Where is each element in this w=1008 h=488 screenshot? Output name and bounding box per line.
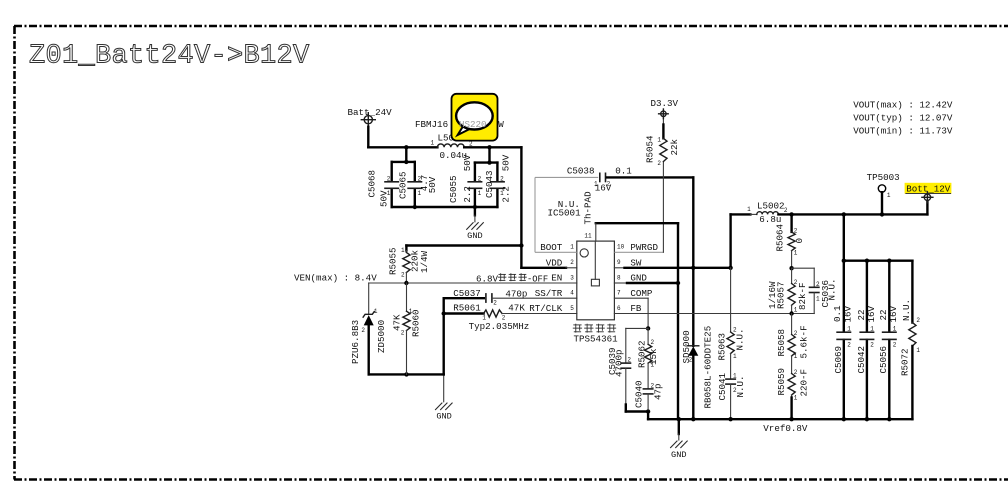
svg-text:1: 1 bbox=[733, 373, 737, 380]
svg-text:1: 1 bbox=[418, 190, 422, 197]
wire Batt_24V vertical drop bbox=[367, 127, 369, 148]
capacitor C5065 bbox=[397, 162, 438, 207]
pin 7 COMP bbox=[617, 288, 653, 299]
svg-text:FBMJ16: FBMJ16 bbox=[415, 119, 448, 130]
svg-text:1: 1 bbox=[887, 192, 891, 199]
svg-text:2: 2 bbox=[816, 281, 820, 288]
pin 10 PWRGD bbox=[617, 242, 658, 253]
svg-text:47K: 47K bbox=[508, 303, 525, 314]
svg-text:TPS54361: TPS54361 bbox=[574, 334, 619, 345]
svg-text:2: 2 bbox=[794, 369, 798, 376]
junction gnd-left rail / R5060 bbox=[404, 372, 408, 376]
resistor R5072 bbox=[900, 261, 921, 420]
svg-text:16V: 16V bbox=[866, 305, 877, 322]
resistor R5064 bbox=[774, 214, 805, 268]
svg-text:2: 2 bbox=[733, 387, 737, 394]
svg-text:R5058: R5058 bbox=[776, 329, 787, 357]
svg-text:2: 2 bbox=[500, 175, 504, 182]
wire out caps feed bbox=[844, 214, 913, 260]
junction SW / snubber bbox=[728, 266, 732, 270]
svg-text:2: 2 bbox=[361, 327, 365, 334]
junction VDD riser / R5055 feed bbox=[519, 243, 523, 247]
svg-text:1: 1 bbox=[794, 307, 798, 314]
wire SS-RT ground riser bbox=[443, 298, 445, 374]
junction L5001 out / input caps B bbox=[487, 145, 491, 149]
junction gnd rail / gnd symbol bbox=[677, 417, 681, 421]
wire C5039 bottom to gnd bbox=[626, 405, 648, 412]
junction EN / R5055 R5060 bbox=[404, 281, 408, 285]
svg-text:16V: 16V bbox=[843, 305, 854, 322]
svg-text:50V: 50V bbox=[501, 154, 512, 171]
svg-text:1: 1 bbox=[478, 190, 482, 197]
svg-text:2: 2 bbox=[627, 357, 631, 364]
resistor R5054 bbox=[645, 118, 680, 167]
svg-text:1: 1 bbox=[794, 395, 798, 402]
svg-text:1: 1 bbox=[733, 353, 737, 360]
wire BOOT bootstrap path (gray) bbox=[535, 177, 598, 252]
svg-text:16V: 16V bbox=[888, 305, 899, 322]
zener diode ZD5000 bbox=[350, 308, 387, 364]
wire EN drop to ZD5000 bbox=[368, 283, 370, 314]
svg-text:2: 2 bbox=[570, 259, 574, 266]
capacitor C5069 bbox=[832, 261, 854, 420]
svg-text:Z01_Batt24V->B12V: Z01_Batt24V->B12V bbox=[29, 42, 310, 72]
wire net GND rail bbox=[648, 418, 912, 420]
junction divider top bbox=[789, 266, 793, 270]
svg-text:D3.3V: D3.3V bbox=[651, 98, 679, 109]
junction gnd rail / snubber bbox=[728, 417, 732, 421]
node Bott_12V terminal bbox=[905, 183, 952, 203]
resistor R5063 bbox=[717, 268, 746, 379]
wire caps B feed bbox=[475, 147, 498, 162]
resistor R5062 bbox=[637, 328, 660, 388]
svg-text:2: 2 bbox=[870, 341, 874, 348]
junction out rail / C5069 bbox=[842, 259, 846, 263]
svg-text:FB: FB bbox=[630, 303, 642, 314]
svg-text:50V: 50V bbox=[462, 154, 473, 171]
svg-text:2: 2 bbox=[794, 228, 798, 235]
junction R5061 / riser bbox=[442, 311, 446, 315]
svg-text:3: 3 bbox=[570, 274, 574, 281]
svg-text:2: 2 bbox=[657, 160, 661, 167]
svg-text:2: 2 bbox=[493, 299, 497, 306]
svg-text:1: 1 bbox=[430, 140, 434, 147]
junction gnd rail / C5069 bbox=[842, 417, 846, 421]
svg-text:6: 6 bbox=[617, 305, 621, 312]
ground input caps bbox=[466, 207, 483, 241]
junction B12V / TP5003 bbox=[880, 212, 884, 216]
note VOUT(max) bbox=[853, 100, 953, 111]
node Vref0.8V label bbox=[763, 423, 808, 434]
pin 11 Th-PAD bbox=[584, 233, 592, 240]
junction B12V / R5064 bbox=[789, 212, 793, 216]
svg-text:R5064: R5064 bbox=[774, 223, 785, 251]
svg-text:COMP: COMP bbox=[630, 288, 653, 299]
svg-text:10: 10 bbox=[617, 244, 625, 251]
wire gnd rail start bbox=[647, 412, 649, 420]
svg-text:C5069: C5069 bbox=[833, 346, 844, 374]
node D3.3V terminal bbox=[651, 98, 679, 119]
wire BOOT-row feed to R5055 bbox=[406, 246, 521, 251]
svg-text:RT/CLK: RT/CLK bbox=[529, 303, 563, 314]
svg-text:VOUT(min) : 11.73V: VOUT(min) : 11.73V bbox=[853, 126, 953, 137]
svg-text:C5041: C5041 bbox=[717, 372, 728, 400]
value 6.8u of L5002 bbox=[759, 214, 781, 225]
pin 3 EN bbox=[551, 273, 574, 284]
svg-text:BOOT: BOOT bbox=[540, 242, 563, 253]
capacitor C5055 bbox=[448, 154, 483, 207]
svg-text:1: 1 bbox=[401, 247, 405, 254]
pin 6 FB bbox=[617, 303, 642, 314]
svg-text:EN: EN bbox=[551, 273, 562, 284]
svg-text:GND: GND bbox=[671, 450, 686, 460]
capacitor C5036 bbox=[792, 268, 838, 313]
junction ground rail / GND stub bbox=[473, 205, 477, 209]
wire Batt_24V rail to L5001 bbox=[368, 146, 437, 148]
wire SW to diode bbox=[692, 268, 694, 346]
note VOUT(typ) bbox=[853, 113, 953, 124]
svg-text:1: 1 bbox=[594, 180, 598, 187]
junction C5040 bottom bbox=[646, 409, 650, 413]
wire net B12V rail bbox=[778, 201, 927, 214]
wire net COMP bbox=[614, 298, 648, 328]
svg-text:1: 1 bbox=[847, 326, 851, 333]
junction out rail / C5056 bbox=[887, 259, 891, 263]
svg-text:1: 1 bbox=[387, 190, 391, 197]
wire VDD feed bbox=[521, 267, 576, 269]
junction FB node bbox=[789, 311, 793, 315]
svg-text:C5055: C5055 bbox=[448, 175, 459, 203]
svg-text:R5063: R5063 bbox=[717, 333, 728, 361]
inductor L5002 bbox=[747, 201, 788, 215]
svg-text:Th-PAD: Th-PAD bbox=[583, 191, 594, 225]
svg-text:1/4W: 1/4W bbox=[419, 250, 430, 273]
svg-text:2: 2 bbox=[916, 317, 920, 324]
svg-text:R5055: R5055 bbox=[388, 247, 399, 275]
svg-text:220-F: 220-F bbox=[798, 369, 809, 397]
junction GND pin8 / riser bbox=[676, 281, 680, 285]
svg-text:R5057: R5057 bbox=[775, 281, 786, 309]
svg-text:N.U.: N.U. bbox=[901, 299, 912, 321]
svg-text:ZD5000: ZD5000 bbox=[376, 320, 387, 353]
svg-text:-OFF: -OFF bbox=[527, 274, 548, 284]
svg-text:9: 9 bbox=[617, 259, 621, 266]
wire net EN bbox=[369, 282, 577, 284]
svg-text:2: 2 bbox=[794, 279, 798, 286]
junction COMP node bbox=[646, 326, 650, 330]
svg-text:Typ2.035MHz: Typ2.035MHz bbox=[469, 321, 530, 332]
svg-text:VEN(max) : 8.4V: VEN(max) : 8.4V bbox=[294, 273, 377, 284]
svg-text:2: 2 bbox=[478, 175, 482, 182]
svg-text:N.U.: N.U. bbox=[826, 278, 837, 300]
testpoint TP5003 bbox=[867, 172, 900, 214]
svg-text:2: 2 bbox=[401, 329, 405, 336]
capacitor C5040 bbox=[634, 380, 664, 411]
svg-text:C5065: C5065 bbox=[397, 171, 408, 199]
svg-text:2: 2 bbox=[847, 341, 851, 348]
label N.U. IC5001 bbox=[548, 199, 582, 218]
svg-text:R5072: R5072 bbox=[900, 348, 911, 376]
svg-text:0.1: 0.1 bbox=[832, 305, 843, 322]
svg-text:RB058L-60DDTE25: RB058L-60DDTE25 bbox=[703, 326, 714, 409]
svg-text:GND: GND bbox=[436, 411, 451, 421]
svg-text:5.6k-F: 5.6k-F bbox=[798, 325, 809, 358]
svg-text:PWRGD: PWRGD bbox=[630, 242, 658, 253]
svg-text:470p: 470p bbox=[505, 288, 527, 299]
value 0.04u of L5001 bbox=[440, 150, 468, 161]
inductor L5001 bbox=[430, 133, 473, 148]
resistor R5061 bbox=[444, 303, 577, 322]
svg-text:Vref0.8V: Vref0.8V bbox=[763, 423, 808, 434]
wire diode anode to gnd bbox=[692, 356, 694, 419]
junction batt rail / input caps A bbox=[404, 145, 408, 149]
junction ground rail / C5065 bbox=[413, 205, 417, 209]
wire PWRGD riser bbox=[662, 162, 664, 252]
capacitor C5039 bbox=[607, 347, 631, 404]
comment balloon icon bbox=[452, 94, 498, 141]
junction caps B rail bbox=[487, 160, 491, 164]
svg-text:2: 2 bbox=[784, 207, 788, 214]
junction gnd rail / C5042 bbox=[865, 417, 869, 421]
svg-text:2: 2 bbox=[387, 175, 391, 182]
svg-text:R5061: R5061 bbox=[453, 303, 481, 314]
svg-text:2: 2 bbox=[689, 357, 693, 364]
svg-text:8: 8 bbox=[617, 274, 621, 281]
svg-text:2: 2 bbox=[650, 382, 654, 389]
svg-text:R5054: R5054 bbox=[645, 135, 656, 163]
junction gnd rail / diode bbox=[691, 417, 695, 421]
svg-text:1: 1 bbox=[794, 353, 798, 360]
node EN note 6.8V OFF bbox=[476, 273, 548, 284]
node EN note VEN(max) bbox=[294, 273, 377, 284]
svg-text:C5056: C5056 bbox=[878, 346, 889, 374]
resistor R5058 bbox=[776, 314, 809, 374]
op-amp U IC5001 body bbox=[577, 241, 615, 320]
capacitor C5056 bbox=[878, 261, 899, 420]
svg-text:11: 11 bbox=[584, 233, 592, 240]
ground main bbox=[670, 419, 687, 460]
svg-text:1: 1 bbox=[374, 308, 378, 315]
svg-text:4: 4 bbox=[570, 290, 574, 297]
svg-text:5: 5 bbox=[570, 305, 574, 312]
pin 1 BOOT bbox=[540, 242, 574, 253]
svg-text:1: 1 bbox=[816, 295, 820, 302]
svg-text:50V: 50V bbox=[427, 176, 438, 193]
svg-text:1: 1 bbox=[657, 136, 661, 143]
svg-text:2: 2 bbox=[794, 330, 798, 337]
svg-text:2: 2 bbox=[733, 327, 737, 334]
svg-text:2: 2 bbox=[607, 180, 611, 187]
svg-text:82k-F: 82k-F bbox=[797, 282, 808, 310]
pin 4 SS/TR bbox=[535, 288, 574, 299]
svg-text:C5037: C5037 bbox=[453, 288, 481, 299]
wire gnd riser bbox=[677, 223, 679, 419]
wire caps A feed bbox=[392, 147, 415, 162]
pin 8 GND bbox=[617, 273, 647, 284]
ferrite bead label FBMJ1608HS220-TW bbox=[415, 119, 504, 130]
svg-text:C5040: C5040 bbox=[634, 380, 645, 408]
resistor R5059 bbox=[776, 368, 809, 419]
svg-text:SS/TR: SS/TR bbox=[535, 288, 563, 299]
svg-text:2: 2 bbox=[418, 175, 422, 182]
svg-text:2: 2 bbox=[401, 272, 405, 279]
capacitor C5043 bbox=[484, 154, 512, 207]
wire PWRGD row (gray) bbox=[614, 251, 663, 253]
capacitor C5038 bbox=[567, 165, 632, 193]
wire net FB bbox=[614, 313, 791, 315]
node Batt_24V label bbox=[348, 107, 393, 118]
junction gnd rail / divider bbox=[789, 417, 793, 421]
junction SW / diode riser bbox=[691, 266, 695, 270]
label IC5001 device bbox=[573, 324, 618, 345]
svg-text:0.1: 0.1 bbox=[615, 165, 632, 176]
svg-text:C5042: C5042 bbox=[856, 346, 867, 374]
wire C5038 to SW riser bbox=[607, 177, 693, 267]
svg-text:4700p: 4700p bbox=[613, 349, 624, 377]
pin 9 SW bbox=[617, 258, 642, 269]
svg-text:1: 1 bbox=[747, 206, 751, 213]
resistor R5057 bbox=[767, 268, 808, 314]
junction out rail / C5042 bbox=[865, 259, 869, 263]
label Th-PAD bbox=[583, 191, 594, 225]
svg-text:R5062: R5062 bbox=[637, 340, 648, 368]
svg-text:1: 1 bbox=[650, 362, 654, 369]
svg-text:6.8V: 6.8V bbox=[476, 273, 499, 284]
svg-text:VOUT(typ) : 12.07V: VOUT(typ) : 12.07V bbox=[853, 113, 953, 124]
wire net SW bbox=[614, 214, 750, 267]
svg-text:IC5001: IC5001 bbox=[548, 207, 582, 218]
svg-text:PZU6.8B3: PZU6.8B3 bbox=[350, 320, 361, 364]
svg-text:2: 2 bbox=[893, 341, 897, 348]
junction B12V / out caps bbox=[842, 212, 846, 216]
note VOUT(min) bbox=[853, 126, 953, 137]
capacitor C5068 bbox=[367, 162, 400, 207]
svg-text:VDD: VDD bbox=[546, 258, 563, 269]
wire thermal pad to gnd riser bbox=[596, 223, 678, 241]
capacitor C5037 bbox=[444, 288, 577, 307]
svg-text:1: 1 bbox=[500, 190, 504, 197]
svg-text:7: 7 bbox=[617, 290, 621, 297]
svg-text:1: 1 bbox=[409, 308, 413, 315]
svg-text:L5002: L5002 bbox=[757, 201, 785, 212]
svg-text:1: 1 bbox=[570, 244, 574, 251]
svg-text:2: 2 bbox=[650, 339, 654, 346]
junction gnd rail / C5056 bbox=[887, 417, 891, 421]
svg-text:1: 1 bbox=[870, 326, 874, 333]
wire input caps ground rail bbox=[392, 206, 498, 208]
wire COMP to C5039 bbox=[626, 328, 648, 362]
note Typ2.035MHz bbox=[469, 321, 530, 332]
svg-text:Batt_24V: Batt_24V bbox=[348, 107, 393, 118]
svg-text:22k: 22k bbox=[669, 138, 680, 155]
title Z01_Batt24V->B12V bbox=[29, 42, 310, 72]
svg-text:0: 0 bbox=[794, 238, 805, 244]
svg-text:1: 1 bbox=[916, 347, 920, 354]
svg-text:N.U.: N.U. bbox=[735, 375, 746, 397]
svg-text:HS220: HS220 bbox=[459, 119, 487, 130]
capacitor C5041 bbox=[717, 372, 746, 419]
resistor R5060 bbox=[392, 283, 422, 374]
wire net GND pin8 bbox=[614, 282, 678, 284]
svg-text:1: 1 bbox=[794, 249, 798, 256]
svg-text:1: 1 bbox=[893, 326, 897, 333]
pin 5 RT/CLK bbox=[529, 303, 574, 314]
svg-text:C5068: C5068 bbox=[367, 170, 378, 198]
wire ZD5000 anode to gnd rail bbox=[369, 325, 444, 374]
svg-text:TP5003: TP5003 bbox=[867, 172, 900, 183]
svg-text:W: W bbox=[498, 119, 504, 130]
svg-text:GND: GND bbox=[467, 231, 482, 241]
ground EN divider bbox=[435, 374, 452, 421]
svg-text:VOUT(max) : 12.42V: VOUT(max) : 12.42V bbox=[853, 100, 953, 111]
capacitor C5042 bbox=[856, 261, 877, 420]
wire L5001 out to VDD corner bbox=[464, 147, 521, 267]
svg-text:R5059: R5059 bbox=[776, 368, 787, 396]
svg-text:2.2: 2.2 bbox=[462, 186, 473, 203]
junction caps A rail bbox=[404, 160, 408, 164]
node Batt_24V terminal bbox=[361, 113, 375, 127]
svg-text:C5043: C5043 bbox=[484, 170, 495, 198]
resistor R5055 bbox=[388, 247, 431, 283]
pin 2 VDD bbox=[546, 258, 574, 269]
diode SD5000 bbox=[681, 326, 714, 409]
svg-text:C5038: C5038 bbox=[567, 165, 595, 176]
